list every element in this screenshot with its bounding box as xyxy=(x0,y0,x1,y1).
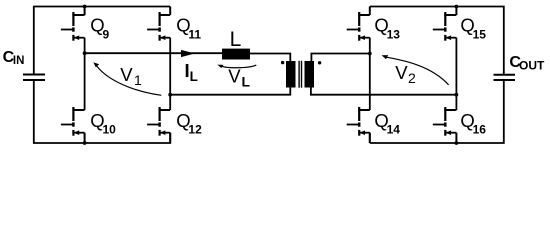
transistor Q16 xyxy=(433,107,457,143)
label I_L xyxy=(185,60,198,84)
wire: primary rail from node A to inductor xyxy=(85,52,223,54)
transistor Q13 xyxy=(347,7,370,41)
node B: leg B / primary bottom junction xyxy=(168,93,172,97)
label Q15 xyxy=(460,15,486,42)
svg-text:12: 12 xyxy=(188,123,202,137)
wire: inductor to transformer primary top xyxy=(250,54,291,62)
transformer T1 secondary winding xyxy=(305,61,315,88)
label Q12 xyxy=(176,110,202,137)
label C_OUT xyxy=(509,54,545,73)
node: Q15 drain / top rail junction xyxy=(455,5,459,9)
label V_L xyxy=(228,65,250,89)
transistor Q11 xyxy=(147,7,170,41)
svg-text:V: V xyxy=(120,64,133,85)
wire: transformer secondary bottom to node D xyxy=(311,87,457,95)
transistor Q15 xyxy=(433,7,457,41)
wire: node B to transformer primary bottom xyxy=(170,87,290,95)
svg-text:IN: IN xyxy=(13,55,25,67)
transformer T1 primary winding xyxy=(286,61,296,88)
wire: top-right rail and C_OUT top lead xyxy=(370,7,504,75)
svg-text:14: 14 xyxy=(387,123,401,137)
wire: transformer secondary top to node C xyxy=(311,54,369,62)
label Q16 xyxy=(460,110,486,137)
wire: bottom-right rail and C_OUT bottom lead xyxy=(370,80,504,143)
svg-text:V: V xyxy=(228,65,241,86)
transistor Q10 xyxy=(61,107,85,143)
svg-text:10: 10 xyxy=(103,123,117,137)
svg-text:9: 9 xyxy=(103,27,110,41)
transistor Q12 xyxy=(147,107,170,143)
arrow: V_L polarity arc xyxy=(217,65,256,69)
label Q14 xyxy=(374,110,400,137)
svg-text:V: V xyxy=(395,62,408,83)
svg-text:L: L xyxy=(230,28,242,51)
transformer core line 2 xyxy=(301,61,303,88)
svg-text:L: L xyxy=(242,74,251,90)
transformer secondary polarity dot xyxy=(318,61,321,64)
node: Q10 source / bottom rail junction xyxy=(83,141,87,145)
wire: C_IN top lead and top-left rail xyxy=(34,7,170,75)
svg-text:16: 16 xyxy=(473,123,487,137)
transistor Q14 xyxy=(347,107,370,143)
svg-text:L: L xyxy=(190,69,198,84)
svg-text:11: 11 xyxy=(188,27,201,41)
wire: leg D vertical (Q15 source to Q16 drain) xyxy=(455,38,457,110)
transistor Q9 xyxy=(61,7,85,41)
label Q13 xyxy=(374,15,400,42)
transformer primary polarity dot xyxy=(281,61,284,64)
node A: leg A midpoint junction xyxy=(83,51,87,55)
label V2 xyxy=(395,62,416,86)
arrow: inductor current direction xyxy=(181,50,195,57)
label Q10 xyxy=(90,110,116,137)
node: Q16 source / bottom rail junction xyxy=(455,141,459,145)
svg-text:15: 15 xyxy=(473,27,487,41)
svg-text:13: 13 xyxy=(387,27,401,41)
svg-text:1: 1 xyxy=(134,72,142,88)
capacitor C_IN xyxy=(23,75,45,81)
label Q9 xyxy=(90,15,109,42)
label V1 xyxy=(120,64,142,88)
capacitor C_OUT xyxy=(494,75,516,80)
wire: leg B vertical (Q11 source to Q12 drain) xyxy=(169,38,171,110)
arrow: V1 voltage reference arc xyxy=(93,62,161,95)
arrow: V2 voltage reference arc xyxy=(382,55,449,85)
label Q11 xyxy=(176,15,201,42)
svg-text:OUT: OUT xyxy=(519,59,545,73)
wire: C_IN bottom lead and bottom-left rail xyxy=(34,80,170,143)
node C: leg C / secondary top junction xyxy=(368,52,372,56)
wire: leg A vertical (Q9 source to Q10 drain) xyxy=(84,38,86,110)
transformer core line 1 xyxy=(298,61,300,88)
label C_IN xyxy=(3,49,25,67)
inductor L xyxy=(222,49,250,60)
wire: leg C vertical (Q13 source to Q14 drain) xyxy=(369,38,371,110)
svg-text:2: 2 xyxy=(408,70,416,86)
node D: leg D / secondary bottom junction xyxy=(455,93,459,97)
node: Q9 drain / top rail junction xyxy=(83,5,87,9)
